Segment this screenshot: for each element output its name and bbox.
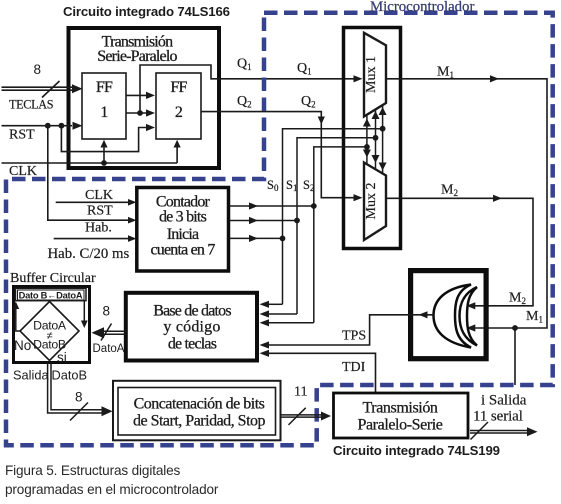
svg-text:TECLAS: TECLAS: [9, 98, 54, 112]
stub select into muxes x=382.6: [382, 105, 384, 173]
svg-text:si: si: [57, 350, 67, 365]
wire counter out S2 row: [230, 205, 314, 207]
svg-text:Inicia: Inicia: [167, 226, 199, 243]
wire counter out S0 row: [230, 237, 283, 239]
wire DatoA bus into buffer: [101, 324, 126, 341]
svg-text:Figura 5. Estructuras digitale: Figura 5. Estructuras digitales: [5, 463, 181, 478]
mux U2 Mux2: [364, 163, 386, 241]
svg-text:FF: FF: [170, 79, 187, 96]
svg-text:Hab.: Hab.: [85, 221, 112, 236]
svg-text:y código: y código: [163, 319, 220, 336]
svg-text:Circuito integrado 74LS166: Circuito integrado 74LS166: [63, 4, 230, 19]
wire Salida bus to concatenation: [48, 363, 104, 421]
svg-text:RST: RST: [9, 128, 35, 143]
svg-text:Concatenación de bits: Concatenación de bits: [134, 396, 265, 413]
svg-text:DatoB: DatoB: [52, 368, 88, 383]
svg-text:11: 11: [294, 385, 307, 400]
svg-text:Mux 2: Mux 2: [364, 183, 379, 220]
svg-text:de Start, Paridad, Stop: de Start, Paridad, Stop: [133, 413, 266, 430]
crescent small: [460, 287, 478, 346]
wire counter out S1 row: [230, 220, 297, 222]
svg-text:Salida: Salida: [13, 368, 49, 383]
wire TDI: [262, 353, 376, 392]
svg-text:Hab. C/20 ms: Hab. C/20 ms: [48, 246, 130, 262]
wire No loop: [16, 305, 20, 332]
wire counter Hab input: [54, 238, 128, 240]
svg-text:8: 8: [75, 390, 83, 405]
svg-text:cuenta en 7: cuenta en 7: [150, 242, 215, 259]
wire TPS from comparator: [262, 315, 434, 345]
wire RST: [2, 125, 73, 127]
flip-flop FF1: [82, 73, 126, 139]
XOR comparator box: [411, 271, 487, 359]
svg-text:DatoA: DatoA: [93, 343, 125, 355]
mux U1 Mux1: [364, 33, 386, 117]
wire serial output: [470, 422, 530, 440]
svg-text:Paralelo-Serie: Paralelo-Serie: [357, 417, 442, 434]
wire FF1 to FF2 upper: [126, 94, 148, 96]
crescent large: [434, 285, 472, 348]
svg-text:Microcontrolador: Microcontrolador: [370, 0, 474, 15]
wire Q2: [201, 112, 357, 198]
svg-text:Transmisión: Transmisión: [362, 400, 437, 417]
svg-text:Mux 1: Mux 1: [364, 56, 379, 93]
stub select into muxes x=366.9: [366, 114, 368, 164]
svg-text:RST: RST: [87, 204, 113, 219]
wire counter RST input: [48, 126, 128, 221]
wire 11-bit bus to 74LS199: [281, 408, 324, 425]
wire FF1 to FF2 lower: [126, 112, 148, 114]
wire register to diamond: [83, 301, 85, 325]
svg-text:Serie-Paralelo: Serie-Paralelo: [97, 48, 177, 65]
svg-text:Base de datos: Base de datos: [153, 303, 231, 320]
svg-text:Dato B←DatoA: Dato B←DatoA: [19, 290, 83, 300]
svg-text:2: 2: [175, 104, 183, 121]
svg-text:8: 8: [34, 62, 42, 77]
mux container box: [344, 28, 401, 249]
wire TECLAS bus (8): [2, 81, 74, 98]
flip-flop FF2: [156, 73, 201, 139]
wire CLK: [2, 144, 178, 164]
wire M1: [386, 79, 547, 328]
register box DatoB<-DatoA: [16, 288, 87, 300]
svg-text:CLK: CLK: [85, 188, 113, 203]
arrow S2 into database: [260, 319, 270, 326]
svg-text:i Salida: i Salida: [481, 393, 527, 409]
svg-text:de 3 bits: de 3 bits: [159, 209, 207, 226]
wire RST to FF2 (via inside box): [61, 126, 148, 152]
IC 74LS166 box: [69, 28, 220, 168]
database box Base de datos: [126, 293, 257, 361]
svg-text:programadas en el microcontrol: programadas en el microcontrolador: [5, 482, 219, 497]
concatenation box outer: [113, 381, 281, 441]
svg-text:FF: FF: [96, 79, 113, 96]
counter box Contador: [137, 188, 229, 272]
wire counter CLK input: [56, 201, 128, 203]
svg-text:1: 1: [100, 104, 108, 121]
svg-text:TPS: TPS: [342, 329, 366, 344]
svg-text:Circuito integrado 74LS199: Circuito integrado 74LS199: [333, 443, 500, 458]
svg-text:8: 8: [103, 304, 111, 319]
IC 74LS199 box Transmision Paralelo-Serie: [334, 393, 469, 438]
arrow S1 into database: [260, 310, 270, 317]
wire select S0 horizontal: [283, 129, 383, 305]
stub select into muxes x=375.5: [375, 109, 377, 169]
svg-text:Buffer Circular: Buffer Circular: [10, 271, 96, 286]
wire select S1 horizontal: [297, 138, 376, 314]
wire select S2 horizontal: [314, 147, 367, 323]
wire M1 drop to serial: [514, 328, 516, 385]
wire M2: [386, 198, 533, 305]
decision diamond: [20, 302, 79, 361]
svg-text:11 serial: 11 serial: [473, 409, 523, 425]
svg-text:TDI: TDI: [342, 360, 366, 375]
wire Q1: [140, 65, 357, 113]
svg-text:de teclas: de teclas: [168, 336, 217, 353]
arrow S0 into database: [260, 301, 270, 308]
svg-text:No: No: [14, 338, 31, 353]
buffer circular box: [14, 287, 90, 363]
